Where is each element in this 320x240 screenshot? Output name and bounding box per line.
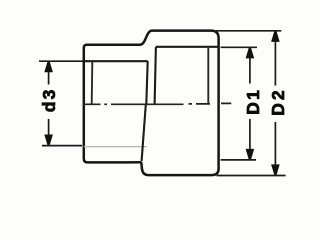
large socket stop line [155, 47, 156, 104]
dimension D2 arrow line [274, 33, 276, 174]
small bore top line [84, 60, 148, 62]
svg-text:d3: d3 [39, 87, 59, 112]
dimension d3 arrowhead up [44, 62, 53, 72]
centerline [84, 102, 231, 105]
dimension D1 arrowhead down [246, 149, 255, 159]
dimension d3 extension line top [39, 60, 84, 62]
svg-text:D1: D1 [243, 88, 263, 115]
dimension d3 arrowhead down [44, 135, 53, 145]
small socket stop line upper [146, 61, 147, 104]
dimension D1 extension line top [221, 46, 257, 48]
svg-text:D2: D2 [268, 87, 288, 115]
dimension D2 extension line top [216, 30, 281, 32]
dimension D1 arrow line [249, 49, 251, 158]
dimension D2 extension line bottom [217, 175, 286, 177]
dimension d3 extension line bottom [42, 145, 82, 147]
dimension D1 arrowhead up [246, 48, 255, 58]
small bore bottom line [84, 146, 147, 148]
dimension D1 extension line bottom [221, 159, 256, 161]
small socket mouth ring [91, 61, 94, 104]
large bore top line [156, 46, 219, 48]
fitting outer profile [84, 31, 219, 176]
large socket mouth ring [207, 47, 209, 104]
dimension D2 arrowhead up [271, 32, 280, 42]
dimension d3 arrow line [48, 63, 50, 144]
small socket stop line lower [142, 105, 146, 162]
dimension D2 arrowhead down [271, 164, 280, 174]
